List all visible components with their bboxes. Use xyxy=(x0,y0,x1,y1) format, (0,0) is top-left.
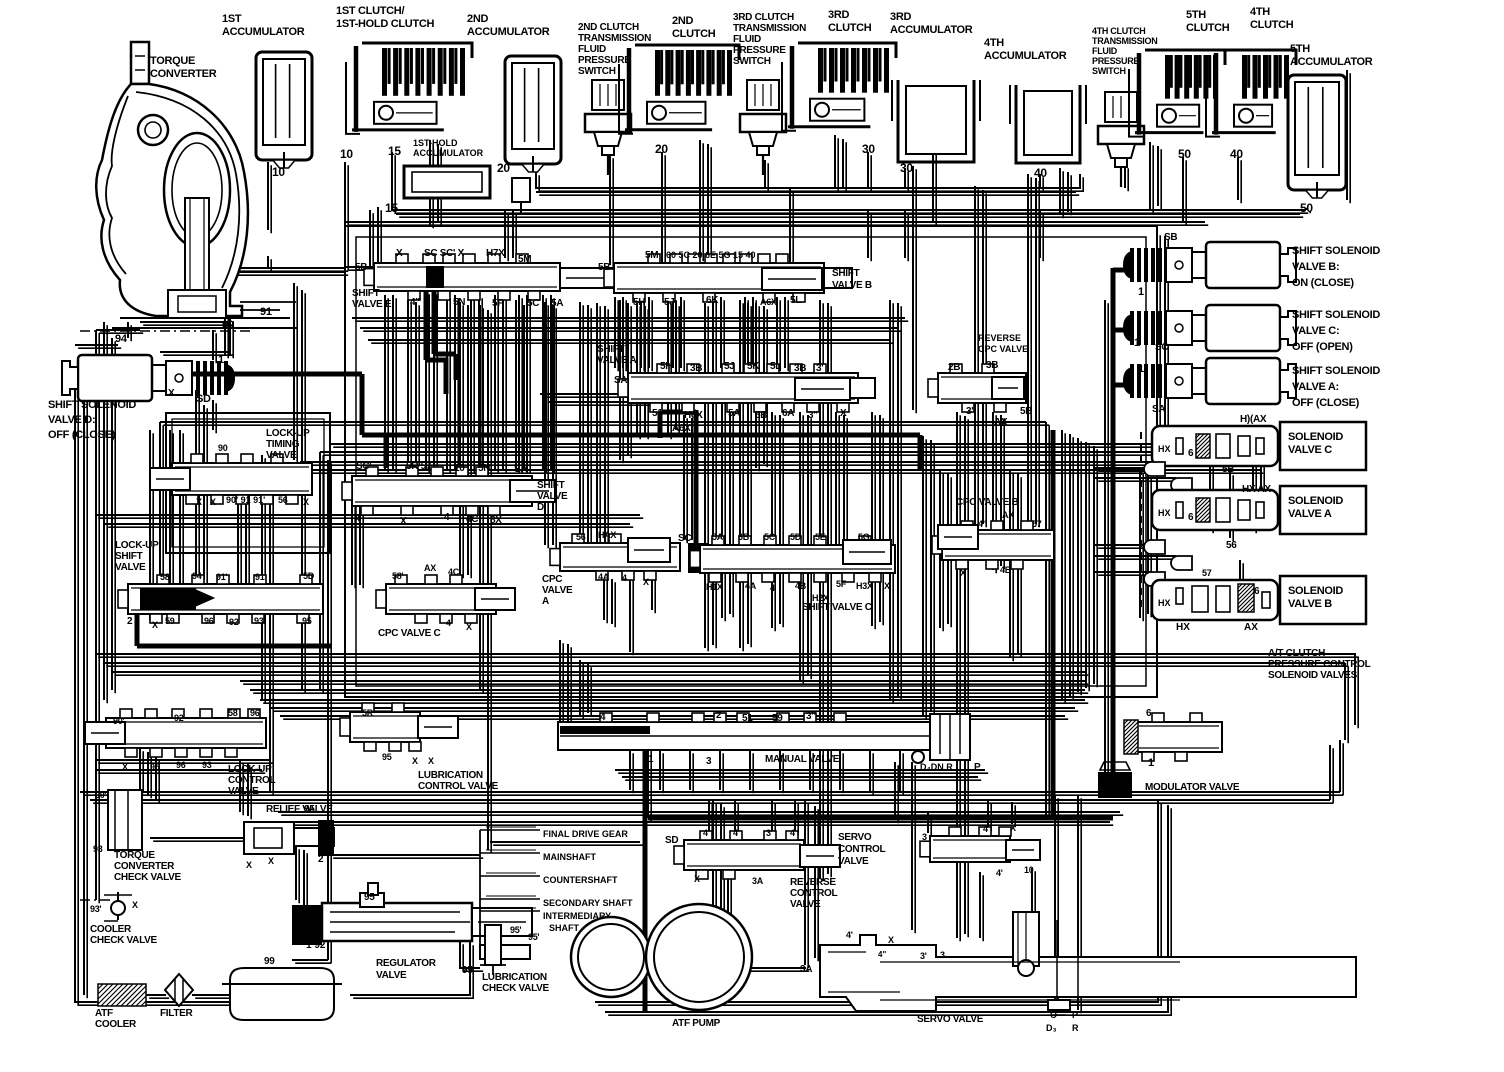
svg-text:4TH CLUTCH: 4TH CLUTCH xyxy=(1092,26,1146,36)
svg-text:3B: 3B xyxy=(986,360,998,371)
svg-text:5R 57: 5R 57 xyxy=(406,461,432,472)
svg-text:3': 3' xyxy=(920,951,927,961)
shift valve C xyxy=(688,543,708,573)
svg-text:5L: 5L xyxy=(790,295,801,306)
svg-text:R: R xyxy=(1072,1023,1079,1033)
svg-text:58': 58' xyxy=(160,572,171,582)
svg-text:95: 95 xyxy=(382,752,392,762)
lock-up timing valve xyxy=(172,463,312,495)
svg-text:CONVERTER: CONVERTER xyxy=(150,68,217,80)
svg-text:2ND CLUTCH: 2ND CLUTCH xyxy=(578,22,639,33)
svg-text:X: X xyxy=(246,860,252,870)
svg-text:4TH: 4TH xyxy=(1250,6,1270,18)
svg-text:93: 93 xyxy=(93,844,103,854)
svg-text:6: 6 xyxy=(1146,708,1152,719)
shift solenoid valve D xyxy=(224,361,228,395)
svg-text:X: X xyxy=(1010,823,1016,833)
svg-text:REVERSE: REVERSE xyxy=(790,877,836,888)
svg-text:TIMING: TIMING xyxy=(266,439,300,450)
svg-text:1ST-HOLD CLUTCH: 1ST-HOLD CLUTCH xyxy=(336,18,435,30)
svg-text:SA: SA xyxy=(1152,404,1165,415)
svg-text:5D: 5D xyxy=(790,532,802,542)
svg-text:SHIFT: SHIFT xyxy=(537,480,565,491)
svg-text:X: X xyxy=(122,762,128,772)
svg-text:ACCUMULATOR: ACCUMULATOR xyxy=(1290,56,1373,68)
svg-text:VALVE: VALVE xyxy=(228,786,259,797)
svg-text:5TH: 5TH xyxy=(1290,43,1310,55)
svg-text:REVERSE: REVERSE xyxy=(978,333,1021,343)
svg-text:PRESSURE CONTROL: PRESSURE CONTROL xyxy=(1268,659,1371,670)
svg-text:4': 4' xyxy=(846,930,853,940)
svg-text:X: X xyxy=(840,408,847,419)
svg-text:X: X xyxy=(132,900,138,910)
svg-text:SHIFT SOLENOID: SHIFT SOLENOID xyxy=(1292,365,1380,377)
svg-text:6: 6 xyxy=(1188,448,1194,459)
svg-text:HX: HX xyxy=(1158,508,1171,518)
svg-text:5K: 5K xyxy=(747,361,760,372)
solenoid valve B assembly xyxy=(1152,580,1278,620)
svg-text:TORQUE: TORQUE xyxy=(114,850,155,861)
svg-text:FLUID: FLUID xyxy=(1092,46,1118,56)
svg-text:3: 3 xyxy=(940,950,945,960)
svg-text:95: 95 xyxy=(364,892,375,903)
wire network horizontal buses xyxy=(75,70,1355,1012)
svg-text:COUNTERSHAFT: COUNTERSHAFT xyxy=(543,875,618,885)
svg-text:90': 90' xyxy=(95,790,106,800)
svg-text:1ST CLUTCH/: 1ST CLUTCH/ xyxy=(336,5,404,17)
svg-text:H7X: H7X xyxy=(486,248,505,259)
svg-text:4": 4" xyxy=(410,297,420,308)
svg-text:D: D xyxy=(537,502,544,513)
svg-text:51: 51 xyxy=(652,408,663,419)
svg-text:LUBRICATION: LUBRICATION xyxy=(418,770,483,781)
reverse CPC valve xyxy=(938,373,1026,403)
svg-text:3RD: 3RD xyxy=(890,11,911,23)
svg-text:SC: SC xyxy=(1155,342,1168,353)
modulator valve xyxy=(1136,722,1222,752)
shift valve A xyxy=(628,373,858,403)
svg-text:VALVE: VALVE xyxy=(542,585,573,596)
svg-text:3: 3 xyxy=(922,832,927,842)
3rd clutch xyxy=(798,43,896,58)
svg-text:5M: 5M xyxy=(645,250,658,261)
svg-text:90' 91 91': 90' 91 91' xyxy=(226,495,265,505)
3rd accumulator xyxy=(898,80,974,162)
svg-text:5N: 5N xyxy=(453,297,465,308)
svg-text:4: 4 xyxy=(790,828,795,838)
svg-text:ATF PUMP: ATF PUMP xyxy=(672,1018,721,1029)
svg-text:CLUTCH: CLUTCH xyxy=(672,28,716,40)
svg-text:PRESSURE: PRESSURE xyxy=(578,55,631,66)
svg-text:VALVE A:: VALVE A: xyxy=(1292,381,1339,393)
4th accumulator xyxy=(1016,85,1080,163)
svg-text:2: 2 xyxy=(127,616,133,627)
svg-text:VALVE: VALVE xyxy=(376,970,407,981)
svg-text:1: 1 xyxy=(1148,757,1154,769)
svg-text:94: 94 xyxy=(192,571,202,581)
shift solenoid valve A right xyxy=(1130,364,1134,398)
ATF cooler xyxy=(98,984,146,1006)
svg-text:10: 10 xyxy=(340,147,353,161)
svg-text:SOLENOID: SOLENOID xyxy=(1288,495,1343,507)
valve body outline xyxy=(345,226,1157,697)
lock-up control valve xyxy=(106,718,266,748)
svg-text:10: 10 xyxy=(1024,865,1034,875)
svg-text:X: X xyxy=(400,516,407,527)
svg-text:X: X xyxy=(268,856,274,866)
svg-text:SERVO VALVE: SERVO VALVE xyxy=(917,1014,984,1025)
svg-text:95: 95 xyxy=(302,616,312,626)
svg-text:3RD: 3RD xyxy=(828,9,849,21)
svg-text:5B: 5B xyxy=(355,262,367,273)
1st accumulator xyxy=(256,52,312,160)
svg-text:VALVE: VALVE xyxy=(838,856,869,867)
svg-text:2ND: 2ND xyxy=(467,13,488,25)
shift valve E xyxy=(374,263,560,291)
svg-text:TRANSMISSION: TRANSMISSION xyxy=(733,23,806,34)
svg-text:SA: SA xyxy=(514,464,527,475)
svg-text:VALVE E: VALVE E xyxy=(352,299,392,310)
svg-text:X: X xyxy=(303,497,309,507)
svg-text:5H: 5H xyxy=(633,297,645,308)
svg-text:5J: 5J xyxy=(664,297,675,308)
svg-text:30: 30 xyxy=(862,142,875,156)
5th accumulator xyxy=(1288,75,1346,190)
svg-text:VALVE: VALVE xyxy=(790,899,821,910)
svg-text:93: 93 xyxy=(202,760,212,770)
svg-text:40: 40 xyxy=(1230,147,1243,161)
5th clutch xyxy=(1145,50,1225,65)
svg-text:HAX: HAX xyxy=(598,530,616,540)
svg-text:4B: 4B xyxy=(1000,565,1012,575)
svg-text:4: 4 xyxy=(770,583,775,593)
svg-text:SHIFT VALVE C: SHIFT VALVE C xyxy=(802,602,872,613)
svg-text:4: 4 xyxy=(446,618,451,628)
svg-text:SWITCH: SWITCH xyxy=(578,66,616,77)
svg-text:X: X xyxy=(196,497,202,507)
solenoid valve A assembly xyxy=(1152,490,1278,530)
svg-text:5E: 5E xyxy=(815,532,826,542)
svg-text:SD: SD xyxy=(196,393,211,405)
svg-text:RELIEF VALVE: RELIEF VALVE xyxy=(266,804,333,815)
svg-text:CPC VALVE: CPC VALVE xyxy=(978,344,1028,354)
svg-text:4TH: 4TH xyxy=(984,37,1004,49)
lock-up timing valve enclosure xyxy=(166,413,330,553)
svg-text:5L: 5L xyxy=(770,361,781,372)
svg-text:ACCUMULATOR: ACCUMULATOR xyxy=(984,50,1067,62)
svg-text:4: 4 xyxy=(600,712,606,723)
svg-text:3A: 3A xyxy=(752,876,764,886)
svg-text:1ST: 1ST xyxy=(222,13,242,25)
svg-text:CPC VALVE B: CPC VALVE B xyxy=(956,497,1019,508)
svg-text:2: 2 xyxy=(318,854,324,865)
svg-text:96: 96 xyxy=(204,616,214,626)
svg-text:X: X xyxy=(354,514,361,525)
svg-text:SHIFT SOLENOID: SHIFT SOLENOID xyxy=(1292,309,1380,321)
svg-text:TRANSMISSION: TRANSMISSION xyxy=(578,33,651,44)
svg-text:X: X xyxy=(960,568,966,578)
svg-text:CHECK VALVE: CHECK VALVE xyxy=(114,872,182,883)
lock-up shift valve xyxy=(128,584,323,614)
svg-text:X: X xyxy=(412,756,418,766)
svg-text:MANUAL VALVE: MANUAL VALVE xyxy=(765,754,840,765)
svg-text:5M: 5M xyxy=(518,254,531,265)
svg-text:TRANSMISSION: TRANSMISSION xyxy=(1092,36,1157,46)
svg-text:LOCK-UP: LOCK-UP xyxy=(115,540,159,551)
reverse control valve right small xyxy=(930,836,1010,862)
filter xyxy=(165,974,193,1006)
svg-text:VALVE A: VALVE A xyxy=(597,355,636,366)
svg-text:94: 94 xyxy=(115,333,128,345)
svg-text:AX: AX xyxy=(1002,510,1014,520)
svg-text:PRESSURE: PRESSURE xyxy=(733,45,786,56)
svg-text:5A: 5A xyxy=(712,532,724,542)
svg-text:LOCK-UP: LOCK-UP xyxy=(266,428,310,439)
svg-text:5D: 5D xyxy=(303,571,315,581)
svg-text:4: 4 xyxy=(622,573,627,583)
svg-text:6B: 6B xyxy=(738,532,750,542)
svg-text:6: 6 xyxy=(1188,512,1194,523)
svg-text:TORQUE: TORQUE xyxy=(150,55,195,67)
svg-text:A: A xyxy=(542,596,549,607)
shift solenoid valve C right xyxy=(1130,311,1134,345)
svg-text:SC': SC' xyxy=(356,461,371,472)
svg-text:5G: 5G xyxy=(858,532,870,542)
svg-text:95: 95 xyxy=(462,965,473,976)
svg-text:30: 30 xyxy=(900,161,913,175)
svg-text:X: X xyxy=(152,620,158,630)
svg-text:4: 4 xyxy=(703,828,708,838)
svg-text:3B: 3B xyxy=(690,363,702,374)
svg-text:CHECK VALVE: CHECK VALVE xyxy=(482,983,550,994)
svg-text:CPC VALVE C: CPC VALVE C xyxy=(378,628,441,639)
svg-text:4: 4 xyxy=(733,828,738,838)
svg-text:H)(AX: H)(AX xyxy=(1240,414,1267,425)
svg-text:CLUTCH: CLUTCH xyxy=(828,22,872,34)
svg-text:X: X xyxy=(888,935,894,945)
svg-text:REGULATOR: REGULATOR xyxy=(376,958,437,969)
svg-text:4': 4' xyxy=(996,868,1003,878)
svg-text:90: 90 xyxy=(222,319,234,331)
svg-text:1: 1 xyxy=(1138,363,1144,375)
ATF pump xyxy=(571,917,651,997)
svg-text:50: 50 xyxy=(1300,201,1313,215)
svg-text:96: 96 xyxy=(250,708,260,718)
svg-text:5C: 5C xyxy=(527,298,539,309)
2nd clutch xyxy=(635,45,739,60)
svg-text:8X: 8X xyxy=(490,515,502,526)
svg-text:FILTER: FILTER xyxy=(160,1008,194,1019)
svg-text:15: 15 xyxy=(388,144,401,158)
svg-text:91: 91 xyxy=(260,306,272,318)
thick feed lines xyxy=(137,268,1128,1012)
svg-text:SOLENOID VALVES: SOLENOID VALVES xyxy=(1268,670,1358,681)
svg-text:5F: 5F xyxy=(492,298,503,309)
svg-text:59: 59 xyxy=(772,713,783,724)
svg-text:4B: 4B xyxy=(795,581,807,591)
svg-text:SHIFT SOLENOID: SHIFT SOLENOID xyxy=(48,399,136,411)
svg-text:CONTROL: CONTROL xyxy=(838,844,886,855)
svg-text:SC: SC xyxy=(678,533,691,544)
svg-text:2ND: 2ND xyxy=(672,15,693,27)
svg-text:COOLER: COOLER xyxy=(95,1019,137,1030)
svg-text:93: 93 xyxy=(254,616,264,626)
svg-text:SD: SD xyxy=(665,835,678,846)
svg-text:6: 6 xyxy=(1254,586,1260,597)
svg-text:5B: 5B xyxy=(1020,406,1032,417)
1st-hold accumulator xyxy=(404,166,490,198)
svg-text:H3X: H3X xyxy=(856,581,873,591)
1st clutch / 1st-hold clutch xyxy=(362,43,472,58)
svg-text:58: 58 xyxy=(228,708,238,718)
svg-text:AX: AX xyxy=(1244,622,1258,633)
CPC valve C xyxy=(386,584,496,614)
svg-text:3: 3 xyxy=(766,828,771,838)
svg-text:X: X xyxy=(643,577,649,587)
svg-text:P: P xyxy=(974,762,981,773)
svg-text:OFF (CLOSE): OFF (CLOSE) xyxy=(48,429,116,441)
svg-text:X: X xyxy=(884,581,890,591)
svg-text:CPC: CPC xyxy=(542,574,562,585)
svg-text:SA: SA xyxy=(614,375,627,386)
svg-text:SERVO: SERVO xyxy=(838,832,872,843)
svg-text:ON (CLOSE): ON (CLOSE) xyxy=(1292,277,1354,289)
svg-text:1: 1 xyxy=(1134,337,1140,349)
svg-text:56: 56 xyxy=(1226,540,1237,551)
svg-text:95: 95 xyxy=(150,762,160,772)
svg-text:X: X xyxy=(168,388,175,399)
lubrication control valve xyxy=(350,712,420,742)
svg-text:56: 56 xyxy=(576,532,586,542)
4th clutch transmission fluid pressure switch xyxy=(1105,92,1137,122)
relief valve xyxy=(244,822,294,854)
svg-text:51: 51 xyxy=(742,713,753,724)
svg-text:59: 59 xyxy=(165,616,175,626)
svg-text:CHECK VALVE: CHECK VALVE xyxy=(90,935,158,946)
svg-text:5H: 5H xyxy=(660,361,672,372)
svg-text:VALVE: VALVE xyxy=(537,491,568,502)
lubrication check valve xyxy=(485,925,501,965)
svg-text:CONTROL: CONTROL xyxy=(228,775,276,786)
svg-text:LUBRICATION: LUBRICATION xyxy=(482,972,547,983)
svg-text:VALVE C:: VALVE C: xyxy=(1292,325,1339,337)
svg-text:SOLENOID: SOLENOID xyxy=(1288,585,1343,597)
svg-text:SWITCH: SWITCH xyxy=(1092,66,1126,76)
svg-text:SHAFT: SHAFT xyxy=(549,923,579,933)
svg-text:58': 58' xyxy=(392,571,403,581)
svg-text:10: 10 xyxy=(272,165,285,179)
svg-text:CONTROL VALVE: CONTROL VALVE xyxy=(418,781,499,792)
svg-text:FINAL DRIVE GEAR: FINAL DRIVE GEAR xyxy=(543,829,628,839)
svg-text:4C: 4C xyxy=(448,567,460,577)
4th clutch xyxy=(1222,50,1296,65)
svg-text:6K: 6K xyxy=(706,295,719,306)
svg-text:VALVE B: VALVE B xyxy=(832,280,872,291)
3rd clutch transmission fluid pressure switch xyxy=(747,80,779,110)
svg-text:FLUID: FLUID xyxy=(733,34,761,45)
svg-text:SHIFT: SHIFT xyxy=(352,288,380,299)
svg-text:93': 93' xyxy=(90,904,101,914)
svg-text:X: X xyxy=(466,622,472,632)
oil pan xyxy=(230,968,334,1020)
svg-text:ATF: ATF xyxy=(95,1008,113,1019)
svg-text:95: 95 xyxy=(304,804,315,815)
svg-text:VALVE: VALVE xyxy=(266,450,297,461)
svg-text:SC SC' X: SC SC' X xyxy=(424,248,465,259)
svg-text:CONTROL: CONTROL xyxy=(790,888,838,899)
svg-text:X: X xyxy=(210,497,216,507)
shift valve D xyxy=(352,476,532,506)
svg-text:2B: 2B xyxy=(948,362,960,373)
svg-text:4": 4" xyxy=(978,519,987,529)
svg-text:57: 57 xyxy=(1032,519,1042,529)
svg-text:D₃: D₃ xyxy=(1046,1023,1057,1033)
svg-text:5C: 5C xyxy=(764,532,776,542)
servo control valve xyxy=(684,840,804,870)
svg-text:95': 95' xyxy=(528,932,539,942)
svg-text:HX AX: HX AX xyxy=(1242,484,1271,495)
svg-text:1: 1 xyxy=(1138,286,1144,298)
svg-text:3A: 3A xyxy=(800,964,812,975)
svg-text:CLUTCH: CLUTCH xyxy=(1186,22,1230,34)
svg-text:3B: 3B xyxy=(794,363,806,374)
svg-text:4: 4 xyxy=(983,824,988,834)
svg-text:3: 3 xyxy=(706,756,712,767)
svg-text:SWITCH: SWITCH xyxy=(733,56,771,67)
svg-text:1: 1 xyxy=(648,754,654,765)
servo valve assembly xyxy=(820,935,1356,1011)
2nd clutch transmission fluid pressure switch xyxy=(592,80,624,110)
CPC valve B xyxy=(942,530,1054,560)
svg-text:92: 92 xyxy=(229,617,239,627)
svg-text:99: 99 xyxy=(264,956,275,967)
svg-text:HX: HX xyxy=(1176,622,1190,633)
svg-text:ACCUMULATOR: ACCUMULATOR xyxy=(413,148,484,158)
svg-text:5J: 5J xyxy=(724,361,735,372)
svg-text:96: 96 xyxy=(176,760,186,770)
svg-text:57: 57 xyxy=(1202,568,1212,578)
svg-text:SHIFT: SHIFT xyxy=(597,344,625,355)
svg-text:A/T CLUTCH: A/T CLUTCH xyxy=(1268,648,1325,659)
svg-text:6A: 6A xyxy=(782,408,794,419)
svg-text:5N: 5N xyxy=(478,463,490,474)
solenoid valve C assembly xyxy=(1152,426,1278,466)
svg-text:HX: HX xyxy=(1158,598,1171,608)
svg-text:ACCUMULATOR: ACCUMULATOR xyxy=(222,26,305,38)
svg-text:4": 4" xyxy=(878,950,886,959)
svg-text:5B: 5B xyxy=(1222,464,1234,475)
svg-text:SOLENOID: SOLENOID xyxy=(1288,431,1343,443)
svg-text:5B: 5B xyxy=(755,410,767,421)
svg-text:15: 15 xyxy=(385,201,398,215)
svg-text:5TH: 5TH xyxy=(1186,9,1206,21)
regulator valve xyxy=(292,905,322,945)
svg-text:P: P xyxy=(1072,1010,1078,1020)
svg-text:MODULATOR VALVE: MODULATOR VALVE xyxy=(1145,782,1240,793)
svg-text:VALVE D:: VALVE D: xyxy=(48,414,95,426)
svg-text:5A: 5A xyxy=(551,298,563,309)
svg-text:VALVE B: VALVE B xyxy=(1288,598,1332,610)
svg-text:5A: 5A xyxy=(728,408,740,419)
CPC valve A xyxy=(560,543,680,571)
svg-text:50: 50 xyxy=(1178,147,1191,161)
svg-text:SHIFT SOLENOID: SHIFT SOLENOID xyxy=(1292,245,1380,257)
svg-text:A6X: A6X xyxy=(760,297,777,307)
svg-text:CLUTCH: CLUTCH xyxy=(1250,19,1294,31)
2nd accumulator xyxy=(505,56,561,164)
svg-text:ACCUMULATOR: ACCUMULATOR xyxy=(467,26,550,38)
torque converter xyxy=(131,42,149,84)
